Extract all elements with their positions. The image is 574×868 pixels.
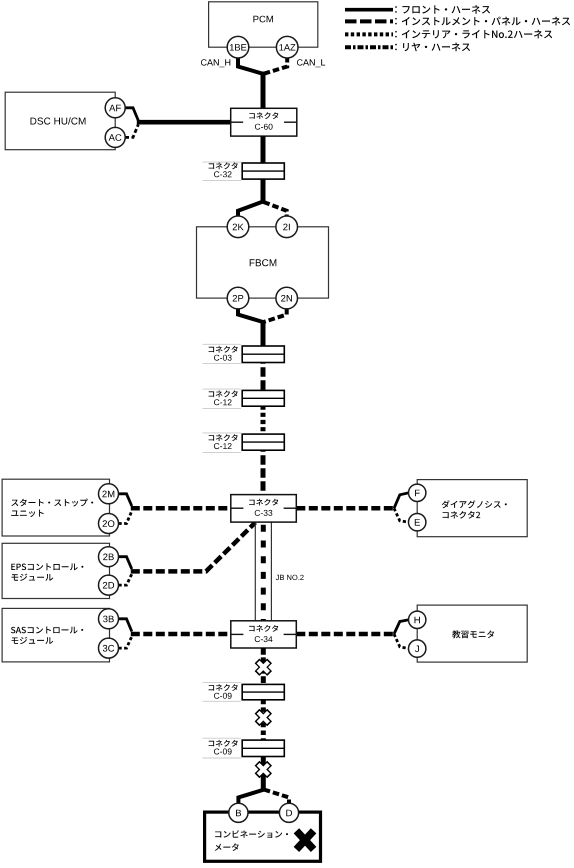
PCM box [209,2,318,47]
pin 1BE [227,36,249,58]
EPS control module box [2,543,109,598]
wire 3B solid [119,619,132,632]
wire trunk FBCM to C-03 [261,320,266,354]
pin 3B [99,609,119,629]
SAS control module box [2,608,109,662]
connector C-32 [242,163,284,179]
wire trunk PCM to C-60 [261,72,266,110]
legend line interior light No.2 harness [345,30,552,39]
label CAN_L [297,59,325,67]
pin AF [105,98,125,118]
connector C-03 label [203,344,242,363]
wire DSC to C-60 thick [137,120,232,125]
wire C-34 to monitor dashed [296,632,394,637]
wire 2N merge dashed [264,308,287,322]
wire E dotted [394,508,409,522]
pin 2N [276,287,298,309]
wire 3C dotted [119,637,132,649]
wire to pin D dashed [264,790,289,805]
pin 2D [99,575,119,595]
connector C-12 #2 [242,434,284,450]
pin 2O [99,514,119,534]
wire trunk C-12 to C-12 dotted [261,398,266,442]
wire start-stop to C-33 dashed [131,506,231,511]
wire F solid [394,493,409,509]
wire trunk C-03 to C-12 dashed [261,354,266,398]
DSC HU/CM box [5,92,115,150]
x-mark cut 3 [257,763,270,776]
wire C-33 to diagnosis dashed [296,506,394,511]
legend line front harness [345,5,490,14]
connector C-12 #2 label [203,433,242,453]
combination meter box [205,812,321,861]
pin AC [105,127,125,147]
start-stop unit box [2,479,109,536]
pin 2B [99,547,119,567]
x-mark cut 2 [257,711,270,724]
JB NO.2 channel lines [255,522,271,621]
wire trunk C-34 to C-09 dashed [261,648,266,692]
pin D [279,803,298,822]
wire J dotted [394,634,409,649]
wire CAN_H solid [238,56,263,74]
training monitor box [417,605,527,662]
wire trunk C-12 to C-33 dashed [261,442,266,495]
wire AF solid [125,108,138,121]
legend line rear harness [345,43,470,52]
connector C-09 #2 label [203,738,242,758]
wire split to 2K solid [238,202,263,218]
wire split to 2I dashed [264,202,287,217]
pin 2P [227,287,249,309]
wire AC dashed [125,125,138,138]
pin F [409,484,426,501]
wire 2D dotted [119,574,132,585]
wire H solid [394,620,409,634]
wire trunk C-60 to FBCM [261,136,266,203]
label CAN_H [201,59,230,67]
pin 2M [99,484,119,504]
wire SAS to C-34 dashed [131,632,231,637]
diagnosis connector 2 box [417,480,527,537]
connector C-09 #1 [242,684,284,699]
legend line instrument panel harness [345,17,570,26]
wire 2M solid [119,494,132,506]
label JB NO.2 [276,575,304,580]
wire EPS to C-33 dashed diagonal [131,523,256,572]
wire trunk C-09 to meter solid [261,748,266,790]
pin 1AZ [276,36,298,58]
wire 2B solid [119,557,132,569]
pin 2K [227,216,249,238]
pin B [229,803,248,822]
pin J [409,640,426,657]
wire 2P merge solid [238,308,263,322]
wire 2O dotted [119,511,132,524]
connector C-32 label [203,162,242,180]
connector C-34 box [231,621,296,648]
connector C-33 box [231,495,296,522]
pin 2I [276,216,298,238]
connector C-12 #1 label [203,389,242,408]
connector C-09 #1 label [203,683,242,702]
wire to pin B solid [238,787,263,804]
connector C-12 #1 [242,390,284,406]
connector C-09 #2 [242,740,284,756]
connector C-60 [231,108,297,136]
wire JB NO.2 dashed [261,522,266,621]
x-mark cut 1 [257,661,270,674]
wire CAN_L dashed [264,56,288,74]
pin E [409,514,426,531]
wire trunk C-09 to C-09 dotted [261,692,266,748]
FBCM box [197,227,329,298]
connector C-03 [242,346,284,363]
pin 3C [99,638,119,658]
pin H [409,611,426,628]
meter fault X icon [296,831,313,850]
